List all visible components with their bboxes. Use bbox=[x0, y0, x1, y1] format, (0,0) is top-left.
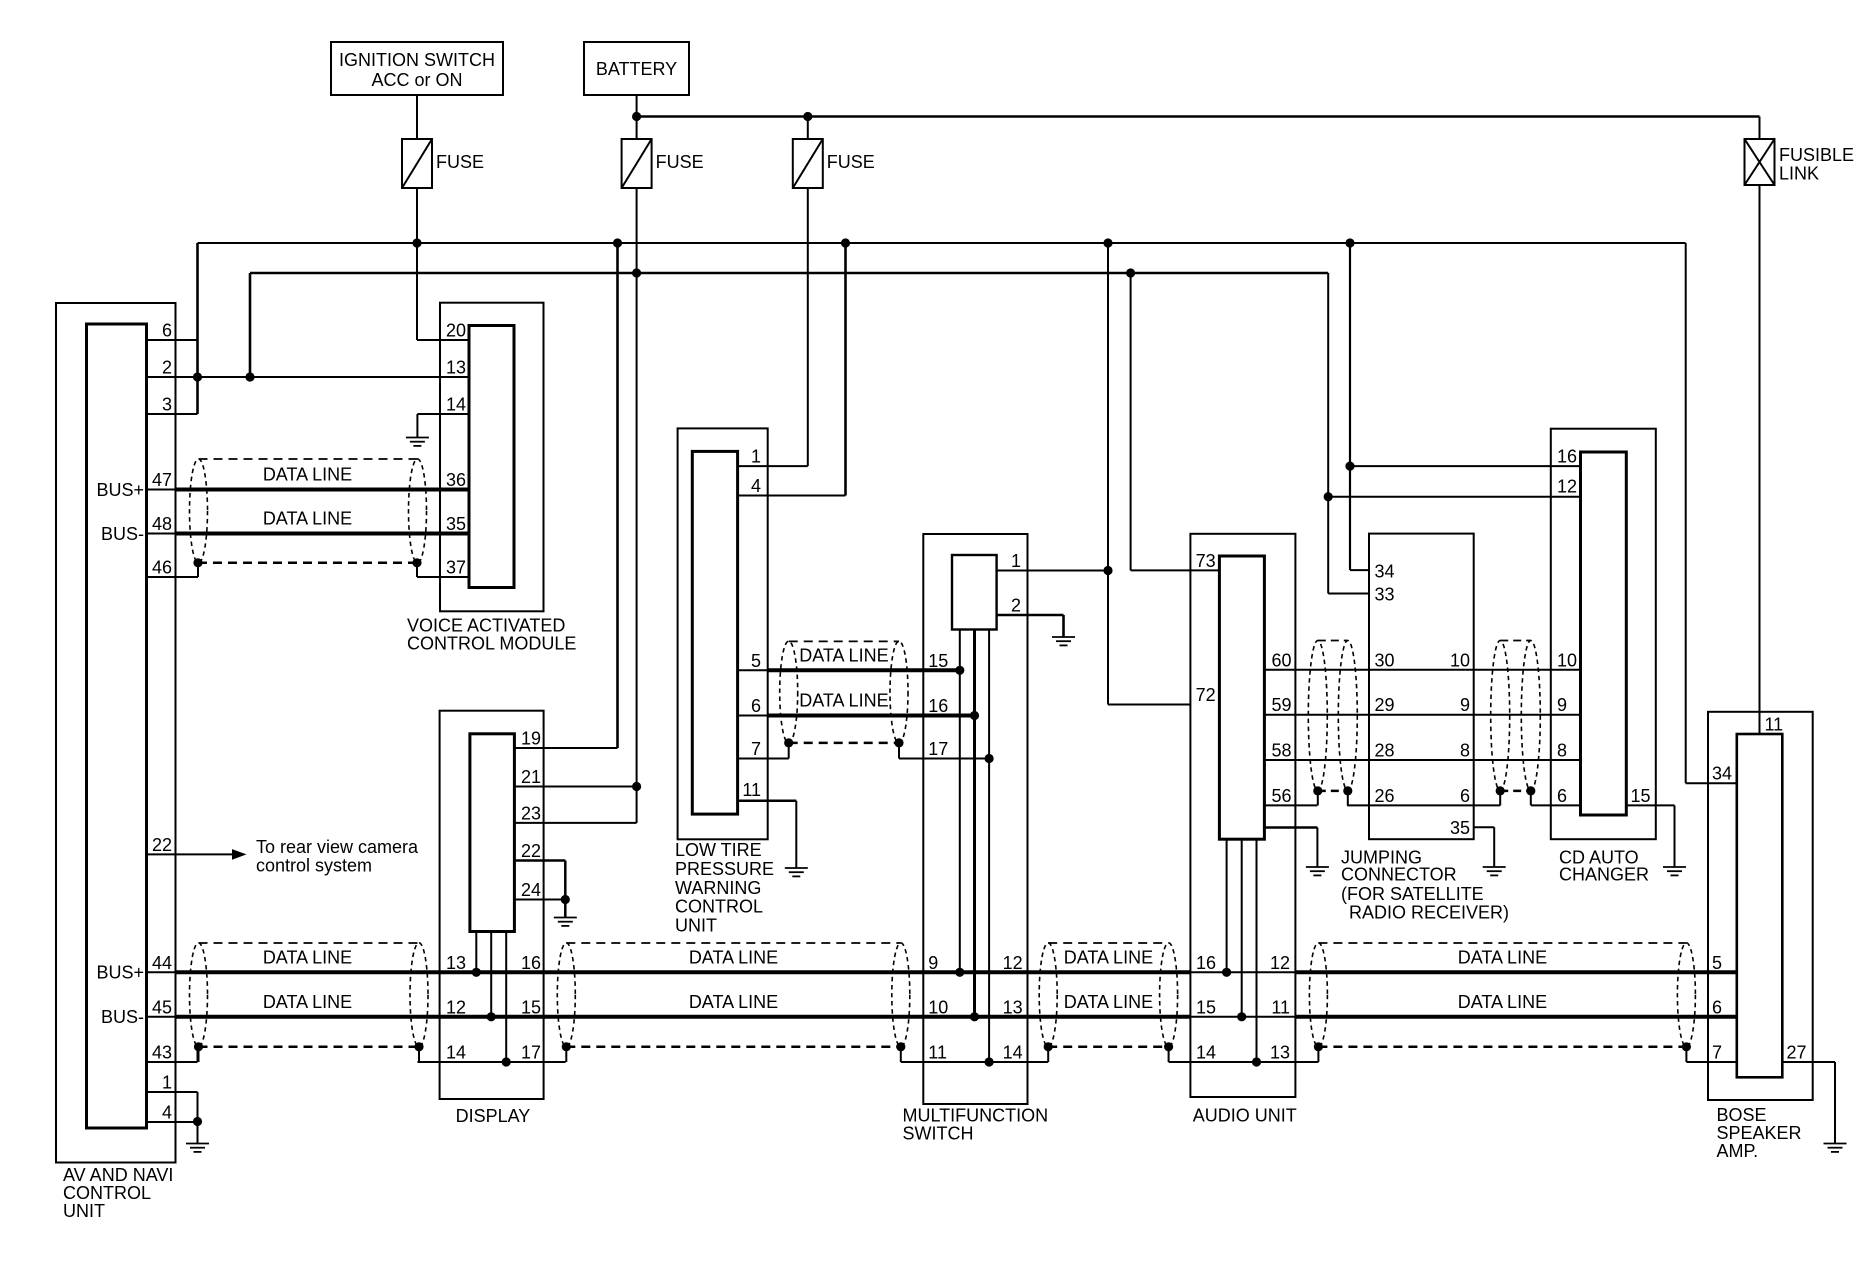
ground multifunction bbox=[1052, 637, 1075, 645]
svg-text:56: 56 bbox=[1271, 786, 1291, 806]
svg-text:2: 2 bbox=[1011, 596, 1021, 616]
svg-text:34: 34 bbox=[1375, 562, 1395, 582]
junction drain voice37 bbox=[412, 558, 421, 567]
svg-text:12: 12 bbox=[1270, 953, 1290, 973]
svg-text:UNIT: UNIT bbox=[675, 916, 717, 936]
svg-text:AUDIO UNIT: AUDIO UNIT bbox=[1193, 1106, 1297, 1126]
svg-text:MULTIFUNCTION: MULTIFUNCTION bbox=[903, 1106, 1049, 1126]
junction drain bbox=[896, 1042, 905, 1051]
wire display pin 23 bbox=[514, 822, 636, 824]
junction pin2 batt bbox=[245, 372, 254, 381]
svg-text:60: 60 bbox=[1271, 650, 1291, 670]
wire low tire pin 7 bbox=[738, 758, 789, 760]
svg-text:45: 45 bbox=[152, 997, 172, 1017]
cd auto changer box bbox=[1551, 429, 1656, 840]
junction pin2 acc bbox=[193, 372, 202, 381]
svg-text:FUSE: FUSE bbox=[656, 152, 704, 172]
svg-text:13: 13 bbox=[446, 358, 466, 378]
AV and NAVI control unit box bbox=[56, 303, 176, 1163]
ground jumping connector bbox=[1483, 867, 1506, 875]
junction MF11 bbox=[985, 1057, 994, 1066]
wire AV pin 4 bbox=[147, 1121, 198, 1123]
junction line1 x1350 bbox=[1345, 238, 1354, 247]
svg-text:To rear view camera: To rear view camera bbox=[256, 837, 419, 857]
bose connector bbox=[1737, 734, 1783, 1077]
wire bose pin 27 to ground bbox=[1782, 1061, 1835, 1063]
svg-text:7: 7 bbox=[751, 739, 761, 759]
audio unit box bbox=[1190, 534, 1295, 1097]
junction cd12 tap bbox=[1324, 492, 1333, 501]
junction drain MF17 bbox=[894, 738, 903, 747]
wire display 13 drop bbox=[475, 932, 477, 973]
svg-text:20: 20 bbox=[446, 321, 466, 341]
wire jumping pin 35 to ground bbox=[1474, 826, 1495, 828]
wire audio 60 to jumping 30 / cd rows bbox=[1264, 669, 1580, 671]
display unit box bbox=[440, 711, 544, 1099]
junction drain bbox=[562, 1042, 571, 1051]
bose speaker amp box bbox=[1708, 712, 1813, 1100]
ground audio bbox=[1306, 867, 1329, 875]
ground bose amp bbox=[1824, 1144, 1847, 1152]
svg-text:16: 16 bbox=[928, 696, 948, 716]
junction MF9 bbox=[955, 968, 964, 977]
wire AV pin 43 bbox=[147, 1061, 198, 1063]
svg-text:CONTROL MODULE: CONTROL MODULE bbox=[407, 634, 576, 654]
svg-text:34: 34 bbox=[1712, 764, 1732, 784]
wire line2 end down to jumping pin 33 bbox=[1327, 273, 1329, 594]
svg-text:6: 6 bbox=[751, 696, 761, 716]
wire data line BUS- bottom bbox=[176, 1015, 1190, 1019]
svg-text:4: 4 bbox=[751, 476, 761, 496]
junction line2 fuse2 bbox=[632, 268, 641, 277]
multifunction switch box bbox=[923, 534, 1027, 1104]
svg-text:DATA LINE: DATA LINE bbox=[263, 947, 352, 967]
svg-text:47: 47 bbox=[152, 470, 172, 490]
svg-text:DATA LINE: DATA LINE bbox=[263, 465, 352, 485]
svg-text:8: 8 bbox=[1557, 741, 1567, 761]
svg-text:LOW TIRE: LOW TIRE bbox=[675, 840, 762, 860]
wire voice pin 20 bbox=[417, 339, 469, 341]
junction drain jumping6 bbox=[1496, 786, 1505, 795]
junction line2 audio73 bbox=[1126, 268, 1135, 277]
wire AV pin 6 bbox=[147, 339, 198, 341]
fuse F2 bbox=[622, 139, 652, 188]
svg-text:11: 11 bbox=[1765, 715, 1784, 735]
wire line2 to audio pin 73 bbox=[1130, 273, 1132, 570]
ground low tire bbox=[785, 868, 808, 876]
svg-text:29: 29 bbox=[1375, 695, 1395, 715]
wire audio col1 bbox=[1226, 839, 1228, 972]
svg-text:VOICE ACTIVATED: VOICE ACTIVATED bbox=[407, 616, 565, 636]
display connector bbox=[470, 734, 515, 932]
wire MF pin 1 bbox=[997, 570, 1108, 572]
shield top dash AV-voice bbox=[199, 458, 418, 460]
wire battery bus to fusible link bbox=[637, 115, 1760, 118]
wire fuse1 to voice pin 20 bbox=[416, 188, 418, 340]
svg-text:58: 58 bbox=[1271, 741, 1291, 761]
junction MF17 bbox=[985, 754, 994, 763]
junction display 12 bbox=[487, 1012, 496, 1021]
junction drain bbox=[414, 1042, 423, 1051]
wire display 22/24 to ground bbox=[564, 861, 567, 918]
junction audio16 bbox=[1222, 968, 1231, 977]
svg-text:BATTERY: BATTERY bbox=[596, 59, 677, 79]
wire fusible link to bose pin 11 bbox=[1759, 185, 1761, 734]
shield jumping-cd bbox=[1491, 641, 1510, 791]
arrowhead bbox=[232, 849, 247, 860]
wire voice pin 37 bbox=[417, 576, 469, 578]
junction MF16 bbox=[970, 711, 979, 720]
wire data line BUS+ AV47 to voice36 bbox=[176, 488, 469, 492]
shield top dash bbox=[566, 942, 901, 944]
wire audio col3 bbox=[1256, 839, 1258, 1062]
svg-text:15: 15 bbox=[1631, 786, 1651, 806]
svg-text:1: 1 bbox=[162, 1073, 172, 1093]
svg-text:BUS-: BUS- bbox=[101, 524, 144, 544]
svg-text:SPEAKER: SPEAKER bbox=[1717, 1123, 1802, 1143]
wire display 14 drop bbox=[505, 932, 507, 1063]
shield drain dash bbox=[1318, 790, 1348, 793]
svg-text:14: 14 bbox=[1003, 1043, 1023, 1063]
svg-text:DATA LINE: DATA LINE bbox=[1064, 992, 1153, 1012]
wire AV pin 22 arrow bbox=[147, 853, 236, 855]
junction drain bbox=[1314, 1042, 1323, 1051]
svg-text:6: 6 bbox=[1557, 786, 1567, 806]
shield top dash bbox=[1318, 942, 1686, 944]
svg-text:16: 16 bbox=[1196, 953, 1216, 973]
svg-text:73: 73 bbox=[1196, 551, 1216, 571]
junction audio14 bbox=[1252, 1057, 1261, 1066]
shield top dash bbox=[1500, 640, 1531, 642]
junction drain bbox=[1164, 1042, 1173, 1051]
svg-text:WARNING: WARNING bbox=[675, 878, 761, 898]
junction line1 fuse1 bbox=[412, 238, 421, 247]
wire MF pin 17 bbox=[899, 758, 989, 760]
wire audio ground bbox=[1264, 826, 1317, 829]
svg-text:RADIO RECEIVER): RADIO RECEIVER) bbox=[1349, 903, 1509, 923]
multifunction connector bbox=[952, 555, 997, 630]
shield low tire-MF bbox=[780, 641, 798, 743]
wire battery feed line2 bbox=[250, 272, 1328, 275]
ground voice module bbox=[406, 438, 429, 446]
svg-text:30: 30 bbox=[1375, 650, 1395, 670]
shield drain dash bbox=[789, 742, 899, 745]
junction drain AV46 bbox=[193, 558, 202, 567]
svg-text:FUSE: FUSE bbox=[436, 152, 484, 172]
wire AV pin 1 bbox=[147, 1091, 198, 1093]
wire AV pin 3 bbox=[147, 413, 198, 415]
svg-text:35: 35 bbox=[1450, 818, 1470, 838]
svg-text:AV AND NAVI: AV AND NAVI bbox=[63, 1165, 173, 1185]
junction audio15 bbox=[1237, 1012, 1246, 1021]
wire cd pin 12 bbox=[1328, 496, 1580, 498]
junction cd16 tap bbox=[1345, 462, 1354, 471]
wire ignition to fuse1 bbox=[416, 95, 418, 139]
svg-text:15: 15 bbox=[1196, 997, 1216, 1017]
svg-text:4: 4 bbox=[162, 1103, 172, 1123]
wire line1 to multifunction pin1 and audio pin72 bbox=[1107, 243, 1109, 705]
svg-text:26: 26 bbox=[1375, 786, 1395, 806]
shield top dash bbox=[199, 942, 420, 944]
wire line1 to AV pins 6/2/3 bbox=[196, 243, 199, 414]
wire data line BUS+ bottom bbox=[176, 970, 1190, 974]
svg-text:PRESSURE: PRESSURE bbox=[675, 859, 774, 879]
svg-text:6: 6 bbox=[162, 321, 172, 341]
svg-text:9: 9 bbox=[1557, 695, 1567, 715]
wire voice pin 14 to ground bbox=[417, 413, 469, 415]
wire low tire pin 1 bbox=[738, 465, 808, 467]
wire display pin 22 bbox=[514, 859, 565, 862]
svg-text:LINK: LINK bbox=[1779, 164, 1819, 184]
fuse F3 bbox=[793, 139, 823, 188]
junction fuse3 tap bbox=[803, 112, 812, 121]
wire to fusible link bbox=[1759, 117, 1761, 140]
svg-text:13: 13 bbox=[1003, 997, 1023, 1017]
low tire connector bbox=[692, 451, 737, 814]
svg-text:13: 13 bbox=[446, 953, 466, 973]
wire MF pin 2 to ground bbox=[997, 614, 1064, 617]
shield ellipses bottom bbox=[190, 943, 208, 1047]
svg-text:CONNECTOR: CONNECTOR bbox=[1341, 865, 1457, 885]
svg-text:BUS+: BUS+ bbox=[96, 963, 144, 983]
shield top dash bbox=[789, 640, 899, 642]
svg-text:DATA LINE: DATA LINE bbox=[689, 947, 778, 967]
svg-text:CONTROL: CONTROL bbox=[63, 1183, 151, 1203]
svg-text:BUS+: BUS+ bbox=[96, 480, 144, 500]
wire to audio pin 72 bbox=[1108, 704, 1190, 706]
svg-text:46: 46 bbox=[152, 558, 172, 578]
shield drain dash AV-voice bbox=[198, 562, 417, 565]
svg-text:28: 28 bbox=[1375, 741, 1395, 761]
svg-text:DATA LINE: DATA LINE bbox=[799, 645, 888, 665]
shield top dash bbox=[1048, 942, 1168, 944]
svg-text:DATA LINE: DATA LINE bbox=[799, 691, 888, 711]
svg-text:15: 15 bbox=[928, 651, 948, 671]
junction drain audio56 bbox=[1313, 786, 1322, 795]
svg-text:11: 11 bbox=[1271, 997, 1290, 1017]
audio connector bbox=[1219, 556, 1264, 839]
svg-text:22: 22 bbox=[152, 835, 172, 855]
svg-text:1: 1 bbox=[1011, 551, 1021, 571]
svg-text:24: 24 bbox=[521, 880, 541, 900]
svg-text:12: 12 bbox=[1557, 477, 1577, 497]
wire AV pins 1/4 to ground bbox=[197, 1092, 199, 1144]
ground display bbox=[554, 918, 577, 926]
wire low tire pin 4 bbox=[738, 495, 846, 497]
svg-text:7: 7 bbox=[1712, 1043, 1722, 1063]
wire display 12 drop bbox=[490, 932, 492, 1017]
svg-text:17: 17 bbox=[928, 739, 948, 759]
wire line1 to low tire pin 4 bbox=[844, 243, 847, 496]
svg-text:10: 10 bbox=[928, 997, 948, 1017]
svg-text:3: 3 bbox=[162, 395, 172, 415]
svg-text:DATA LINE: DATA LINE bbox=[263, 992, 352, 1012]
svg-text:DATA LINE: DATA LINE bbox=[1458, 992, 1547, 1012]
wire MF col1 bbox=[959, 630, 961, 973]
AV connector bbox=[87, 324, 147, 1128]
wire bose pin 34 bbox=[1686, 782, 1737, 784]
svg-text:BOSE: BOSE bbox=[1717, 1105, 1767, 1125]
wire display pin 24 bbox=[514, 899, 565, 901]
junction drain bbox=[1682, 1042, 1691, 1051]
svg-text:23: 23 bbox=[521, 803, 541, 823]
junction display 14 bbox=[502, 1057, 511, 1066]
svg-text:DATA LINE: DATA LINE bbox=[1458, 947, 1547, 967]
junction line1 display19 bbox=[613, 238, 622, 247]
svg-text:14: 14 bbox=[1196, 1043, 1216, 1063]
svg-text:9: 9 bbox=[1460, 695, 1470, 715]
svg-text:CHANGER: CHANGER bbox=[1559, 865, 1649, 885]
svg-text:DISPLAY: DISPLAY bbox=[456, 1106, 531, 1126]
wire audio pin 73 bbox=[1131, 569, 1220, 571]
svg-text:UNIT: UNIT bbox=[63, 1201, 105, 1221]
svg-text:9: 9 bbox=[928, 953, 938, 973]
battery box bbox=[584, 42, 689, 95]
wire jumping pin 34 bbox=[1350, 569, 1369, 571]
svg-text:8: 8 bbox=[1460, 741, 1470, 761]
svg-text:1: 1 bbox=[751, 447, 761, 467]
svg-text:19: 19 bbox=[521, 729, 541, 749]
wire pin rows y1062 bbox=[418, 1061, 566, 1063]
junction pin21 feed bbox=[632, 782, 641, 791]
svg-text:72: 72 bbox=[1196, 685, 1216, 705]
ground cd changer bbox=[1663, 867, 1686, 875]
svg-text:44: 44 bbox=[152, 953, 172, 973]
svg-text:FUSE: FUSE bbox=[827, 152, 875, 172]
shield audio-jumping bbox=[1308, 641, 1327, 791]
svg-text:22: 22 bbox=[521, 841, 541, 861]
junction drain jumping26 bbox=[1343, 786, 1352, 795]
svg-text:BUS-: BUS- bbox=[101, 1007, 144, 1027]
svg-text:CONTROL: CONTROL bbox=[675, 897, 763, 917]
svg-text:21: 21 bbox=[521, 767, 541, 787]
svg-text:11: 11 bbox=[928, 1043, 947, 1063]
wire audio 56 row bbox=[1264, 804, 1317, 806]
wire data line low tire 5 to MF 15 bbox=[768, 668, 960, 672]
svg-text:27: 27 bbox=[1787, 1043, 1807, 1063]
svg-text:ACC or ON: ACC or ON bbox=[371, 70, 462, 90]
wire line1 end down to bose pin 34 bbox=[1685, 243, 1687, 783]
wire fuse2 down to display pins 21/23 bbox=[636, 188, 638, 823]
svg-text:12: 12 bbox=[1003, 953, 1023, 973]
shield top dash bbox=[1318, 640, 1348, 642]
svg-text:10: 10 bbox=[1557, 650, 1577, 670]
svg-text:13: 13 bbox=[1270, 1043, 1290, 1063]
wire data line low tire 6 to MF 16 bbox=[768, 714, 975, 718]
voice activated control module box bbox=[440, 303, 544, 612]
wire cd pin 16 bbox=[1350, 465, 1581, 467]
junction line1 lowtire4 bbox=[841, 238, 850, 247]
wire to fuse3 bbox=[807, 117, 809, 140]
wire audio col2 bbox=[1241, 839, 1243, 1017]
ignition switch box bbox=[331, 42, 503, 95]
junction line1 x1108 bbox=[1103, 238, 1112, 247]
svg-text:43: 43 bbox=[152, 1043, 172, 1063]
svg-text:16: 16 bbox=[521, 953, 541, 973]
svg-text:59: 59 bbox=[1271, 695, 1291, 715]
junction drain bbox=[194, 1042, 203, 1051]
svg-text:14: 14 bbox=[446, 395, 466, 415]
svg-text:33: 33 bbox=[1375, 585, 1395, 605]
svg-text:AMP.: AMP. bbox=[1717, 1141, 1759, 1161]
fusible link bbox=[1745, 139, 1775, 185]
wire cd pin 15 to ground bbox=[1626, 804, 1674, 806]
junction pin24 gnd bbox=[561, 895, 570, 904]
svg-text:(FOR SATELLITE: (FOR SATELLITE bbox=[1341, 884, 1484, 904]
svg-text:36: 36 bbox=[446, 470, 466, 490]
svg-text:37: 37 bbox=[446, 558, 466, 578]
wire line2 to AV pin 2 bbox=[249, 273, 252, 377]
svg-text:DATA LINE: DATA LINE bbox=[689, 992, 778, 1012]
wire jumping pin 33 bbox=[1328, 593, 1369, 595]
svg-text:FUSIBLE: FUSIBLE bbox=[1779, 145, 1854, 165]
svg-text:DATA LINE: DATA LINE bbox=[263, 509, 352, 529]
low tire pressure warning control unit box bbox=[678, 428, 768, 839]
svg-text:5: 5 bbox=[751, 651, 761, 671]
wire data line BUS- AV48 to voice35 bbox=[176, 532, 469, 536]
svg-text:IGNITION SWITCH: IGNITION SWITCH bbox=[339, 50, 495, 70]
shield drain dash bbox=[1500, 790, 1531, 793]
svg-text:2: 2 bbox=[162, 358, 172, 378]
svg-text:10: 10 bbox=[1450, 650, 1470, 670]
wire MF col3 bbox=[988, 630, 990, 1063]
svg-text:16: 16 bbox=[1557, 447, 1577, 467]
wire battery to fuse2 bbox=[636, 95, 638, 139]
voice module connector bbox=[469, 326, 514, 588]
junction display 13 bbox=[472, 968, 481, 977]
cd changer connector bbox=[1581, 452, 1627, 815]
svg-text:48: 48 bbox=[152, 514, 172, 534]
wire low tire pin 11 to ground bbox=[738, 799, 797, 802]
svg-text:5: 5 bbox=[1712, 953, 1722, 973]
shield AV-voice bbox=[190, 459, 208, 563]
fuse F1 bbox=[402, 139, 432, 188]
wire fuse3 to low tire pin 1 bbox=[807, 188, 809, 466]
jumping connector box bbox=[1369, 534, 1474, 840]
svg-text:15: 15 bbox=[521, 997, 541, 1017]
svg-text:DATA LINE: DATA LINE bbox=[1064, 947, 1153, 967]
junction drain lowtire7 bbox=[784, 738, 793, 747]
junction battery feed bbox=[632, 112, 641, 121]
wire ACC feed line1 bbox=[198, 242, 1686, 244]
svg-text:17: 17 bbox=[521, 1043, 541, 1063]
svg-text:SWITCH: SWITCH bbox=[903, 1124, 974, 1144]
junction MF15 bbox=[955, 666, 964, 675]
svg-text:6: 6 bbox=[1460, 786, 1470, 806]
wire shield drain bottom row bbox=[199, 1046, 420, 1049]
wire display pin 19 bbox=[514, 747, 617, 749]
svg-text:control system: control system bbox=[256, 856, 372, 876]
junction MF10 bbox=[970, 1012, 979, 1021]
wire display pin 21 bbox=[514, 786, 636, 788]
ground AV unit bbox=[186, 1144, 209, 1152]
wire AV pin 2 to voice pin 13 bbox=[147, 376, 470, 378]
wire MF col2 bbox=[973, 630, 976, 1017]
svg-text:35: 35 bbox=[446, 514, 466, 534]
junction MF1 feed bbox=[1103, 566, 1112, 575]
svg-text:6: 6 bbox=[1712, 997, 1722, 1017]
wire line1 to jumping pin 34 bbox=[1349, 243, 1351, 570]
svg-text:11: 11 bbox=[742, 780, 761, 800]
junction drain cd6 bbox=[1526, 786, 1535, 795]
junction drain bbox=[1044, 1042, 1053, 1051]
wire AV pin 46 bbox=[147, 576, 199, 578]
wire line1 to display pin 19 bbox=[616, 243, 619, 748]
junction pin4 gnd bbox=[193, 1117, 202, 1126]
svg-text:12: 12 bbox=[446, 997, 466, 1017]
svg-text:14: 14 bbox=[446, 1043, 466, 1063]
